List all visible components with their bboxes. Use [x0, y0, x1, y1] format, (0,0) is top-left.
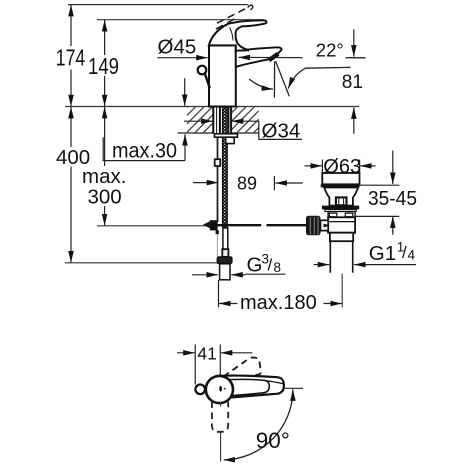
notch slot left [329, 213, 336, 217]
svg-text:90°: 90° [256, 428, 290, 453]
handle face converging line [263, 380, 284, 383]
dimension max.180 [219, 280, 343, 314]
side port block [321, 220, 329, 230]
dimension Ø63 [305, 156, 376, 178]
small dot detail [224, 388, 226, 390]
centerline dash above [220, 403, 222, 407]
faucet body circle (top view) [206, 376, 233, 403]
max.300 bottom reference line [97, 225, 206, 227]
drain plug cap [322, 173, 359, 184]
dashed lever tip hook [248, 5, 253, 10]
mounting nut flange [215, 134, 238, 137]
pop-up knob [198, 66, 207, 75]
svg-text:300: 300 [88, 186, 122, 209]
label Ø45 [157, 36, 207, 59]
mounting nut body [226, 137, 235, 143]
rod clamp [215, 159, 221, 166]
label G1 1/4 [314, 240, 417, 265]
spout [236, 47, 282, 67]
dashed spout (top view) [212, 402, 228, 432]
svg-text:8: 8 [274, 260, 282, 275]
hose crimp sleeve [222, 249, 228, 257]
22 degree wedge vertical line [273, 61, 275, 97]
tailpipe centerline [341, 274, 343, 308]
set screw arrow detail [324, 224, 331, 228]
drain clamp [336, 197, 347, 205]
handle top view inner contour [225, 379, 270, 396]
spout centerline [220, 433, 222, 462]
G3/8 connector tube [220, 264, 230, 280]
svg-text:Ø63: Ø63 [323, 156, 361, 178]
supply hose tube [223, 228, 228, 249]
faint rod continuation [216, 234, 218, 256]
deck bottom line right [231, 132, 259, 134]
svg-text:41: 41 [197, 343, 216, 363]
waste lower body [330, 233, 353, 242]
waste body [328, 217, 355, 232]
horizontal linkage rod segment 2 [267, 224, 307, 226]
body slot mark [219, 386, 222, 392]
400 bottom reference line [65, 262, 219, 264]
top reference line 174 [68, 4, 249, 6]
aerator [269, 54, 278, 60]
81 top reference line segment [346, 57, 366, 59]
svg-text:35-45: 35-45 [368, 187, 417, 210]
linkage block stub [216, 230, 219, 234]
dimension max.30 [103, 78, 185, 162]
dimension 174 [56, 5, 86, 106]
pop-up linkage clamp block [210, 220, 218, 230]
svg-text:max.30: max.30 [112, 139, 177, 162]
svg-text:4: 4 [408, 248, 416, 263]
countertop deck top line [65, 106, 359, 108]
dashed raised lever top edge [217, 7, 248, 23]
22 degree wedge slanted line [276, 61, 290, 96]
svg-text:G: G [247, 254, 263, 277]
dimension 89 [193, 174, 303, 194]
lever handle [209, 20, 267, 50]
drain flange lower band [325, 209, 356, 211]
deck hatching right of shank [231, 107, 259, 134]
tailpipe right wall [352, 241, 354, 273]
drain top flange [322, 206, 359, 210]
threaded shank knurled column [222, 107, 227, 228]
90 degree swing arc [224, 389, 293, 460]
swing arc right [288, 67, 350, 88]
dashed rotated handle (top view) [224, 357, 261, 376]
reference line 149 [97, 19, 264, 21]
faucet body [209, 45, 236, 106]
svg-text:149: 149 [88, 53, 119, 79]
90 degree reference line [284, 387, 303, 389]
svg-text:22°: 22° [316, 40, 344, 61]
drain cap bottom band [321, 184, 360, 187]
svg-text:/: / [268, 256, 273, 275]
dimension 41 [177, 343, 252, 384]
horizontal linkage rod segment 1 [218, 224, 262, 226]
dimension max.300 [82, 107, 126, 225]
svg-text:Ø45: Ø45 [158, 36, 197, 59]
drain neck [324, 188, 358, 206]
tailpipe left wall [329, 241, 331, 273]
swing arc left [249, 79, 273, 89]
svg-text:Ø34: Ø34 [262, 120, 301, 143]
handle top view outer [218, 376, 284, 399]
faucet shank wall lines in deck hole [213, 107, 231, 134]
deck bottom line left [178, 132, 214, 134]
dimension 35-45 [356, 151, 418, 235]
pop-up linkage wedge [203, 221, 210, 228]
svg-text:81: 81 [342, 72, 363, 93]
knob stem [205, 74, 210, 89]
dimension label Ø34 [184, 120, 302, 143]
dimension 400 [56, 107, 90, 263]
pop-up knob (top view) [195, 385, 205, 395]
label 22 degrees leader with arrow [239, 56, 303, 58]
waste body divider [328, 221, 355, 223]
lever detail line [230, 28, 234, 41]
hose end fitting nut [217, 257, 232, 264]
dimension 81 [342, 29, 363, 133]
drain notch band [328, 212, 355, 218]
pop-up rod [217, 137, 219, 222]
label G3/8 [192, 252, 286, 277]
notch slot right [345, 213, 353, 217]
svg-text:max.180: max.180 [240, 292, 317, 314]
svg-text:89: 89 [237, 174, 257, 194]
svg-text:174: 174 [56, 44, 86, 70]
deck hatching left of shank [187, 107, 213, 134]
dashed raised lever lower edge [216, 18, 237, 29]
svg-text:/: / [402, 243, 407, 262]
svg-text:G1: G1 [369, 242, 396, 265]
dimension 149 [88, 20, 119, 106]
side port knurled nut [306, 216, 321, 236]
